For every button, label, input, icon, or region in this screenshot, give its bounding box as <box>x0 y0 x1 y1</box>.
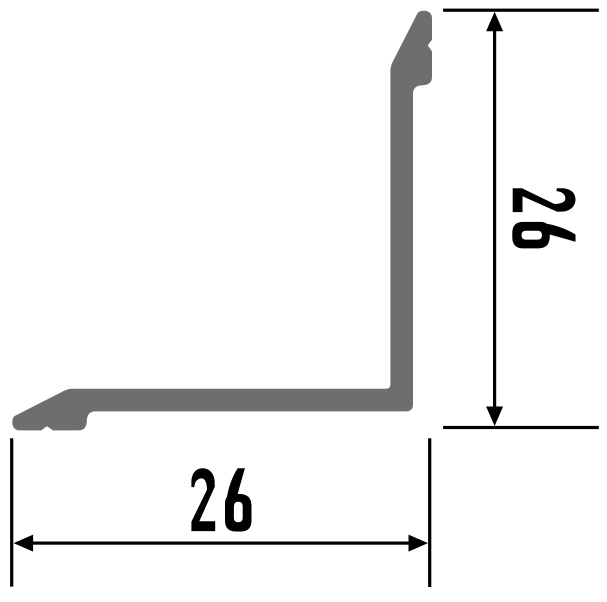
dimension line horizontal <box>26 542 416 545</box>
arrowhead left <box>14 535 33 552</box>
arrowhead down <box>486 407 503 427</box>
text 26 (bottom, horizontal) <box>191 468 251 531</box>
extension line top <box>443 9 599 12</box>
extension line left <box>10 438 13 586</box>
text 26 (right side, rotated 90deg clockwise) <box>512 188 575 248</box>
dimension line vertical <box>493 24 496 414</box>
extension line bottom <box>443 426 599 429</box>
profile: L-shaped aluminium angle cross-section <box>12 11 432 431</box>
arrowhead right <box>409 535 429 552</box>
extension line right <box>428 438 431 587</box>
arrowhead up <box>486 12 503 32</box>
